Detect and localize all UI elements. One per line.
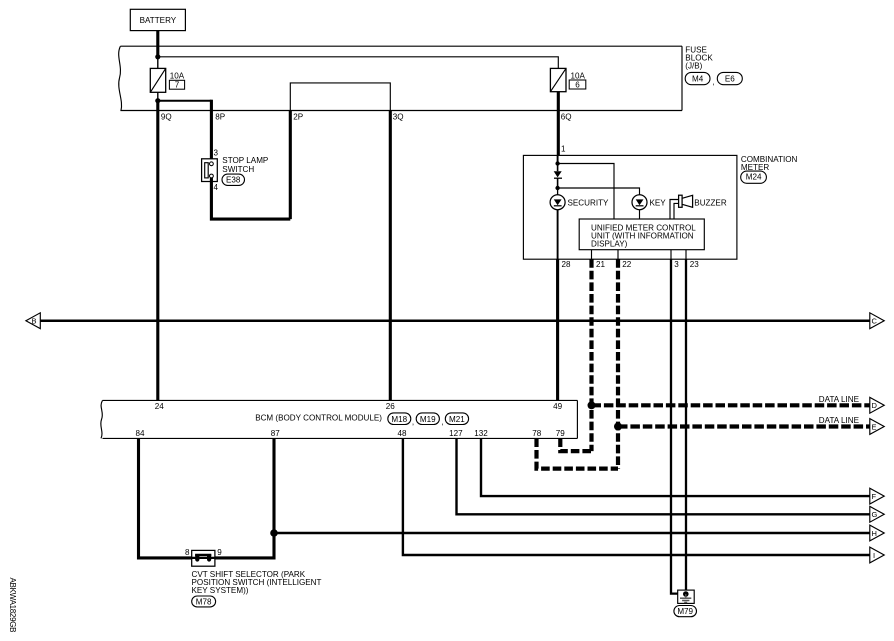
node junction below battery <box>155 54 160 59</box>
wire BCM pin 48 to I <box>403 438 870 555</box>
svg-text:23: 23 <box>690 260 700 269</box>
label STOP LAMP SWITCH <box>222 156 268 174</box>
wire meter pin 23 to ground <box>685 259 687 593</box>
svg-text:24: 24 <box>155 402 165 411</box>
node junction data line D <box>588 401 596 409</box>
svg-text:M24: M24 <box>746 173 762 182</box>
svg-text:6: 6 <box>575 81 580 90</box>
wire 6Q to combination meter pin 1 <box>557 92 560 156</box>
wire H line <box>274 532 870 534</box>
wire junction 2 to KEY lamp <box>558 188 640 195</box>
svg-text:8: 8 <box>185 548 190 557</box>
svg-text:E38: E38 <box>226 176 241 185</box>
connector E6 <box>717 72 742 84</box>
wire meter pin 28 to BCM pin 49 <box>556 259 559 400</box>
combination meter box <box>523 155 737 259</box>
wire BCM pin 79 shielded <box>560 438 591 451</box>
label FUSE BLOCK (J/B) <box>685 45 713 70</box>
node junction meter top <box>555 161 559 165</box>
svg-text:DATA LINE: DATA LINE <box>819 416 860 425</box>
svg-text:84: 84 <box>135 429 145 438</box>
svg-text:2P: 2P <box>293 112 303 121</box>
svg-text:M79: M79 <box>677 607 693 616</box>
svg-text:9: 9 <box>217 548 222 557</box>
svg-text:KEY: KEY <box>650 198 667 207</box>
wire stop lamp switch pin 4 to 2P <box>211 178 290 219</box>
label CVT SHIFT SELECTOR <box>192 570 322 595</box>
svg-text:10A: 10A <box>170 71 185 80</box>
svg-text:28: 28 <box>562 260 572 269</box>
svg-text:G: G <box>872 510 878 519</box>
diode D1 <box>554 171 562 178</box>
wire shielded data line pin 22 <box>616 259 620 468</box>
internal link 2P to 3Q <box>290 83 390 111</box>
wire fuse 7 to lower junction <box>157 92 159 100</box>
connector M78 <box>192 596 216 607</box>
svg-text:3Q: 3Q <box>393 112 404 121</box>
label COMBINATION METER <box>741 155 798 172</box>
svg-text:21: 21 <box>596 260 606 269</box>
wire BCM pin 87 <box>272 438 275 533</box>
svg-text:SECURITY: SECURITY <box>568 198 610 207</box>
node junction data line E <box>614 423 622 431</box>
ground M79 <box>678 590 695 603</box>
wire pin 1 into meter <box>557 155 559 163</box>
svg-text:4: 4 <box>214 183 219 192</box>
LED KEY indicator <box>632 195 647 210</box>
connector M19 <box>416 413 439 425</box>
connector M18 <box>388 413 411 425</box>
wire 2P stop lamp switch loop <box>289 111 292 220</box>
wire unified unit pin 22 <box>617 250 619 260</box>
connector M24 <box>741 171 767 183</box>
svg-text:M18: M18 <box>391 415 407 424</box>
wire diode anode <box>557 164 559 172</box>
svg-text:KEY SYSTEM)): KEY SYSTEM)) <box>192 586 249 595</box>
svg-text:78: 78 <box>532 429 542 438</box>
svg-text:48: 48 <box>397 429 407 438</box>
svg-text:I: I <box>873 551 875 560</box>
svg-text:M19: M19 <box>420 415 436 424</box>
connector arrow H <box>870 525 884 541</box>
connector arrow G <box>870 506 884 522</box>
svg-text:STOP LAMP: STOP LAMP <box>222 156 268 165</box>
BCM box <box>101 400 578 438</box>
svg-text:49: 49 <box>553 402 563 411</box>
svg-text:1: 1 <box>561 144 566 153</box>
connector E38 <box>222 174 245 185</box>
unified meter control unit U1 <box>579 219 704 250</box>
wire BCM pin 78 shielded <box>537 438 619 468</box>
wire unified unit pin 23 <box>685 250 687 260</box>
stop lamp switch E38 <box>202 159 218 182</box>
connector M79 <box>674 606 697 617</box>
node junction 2 <box>555 186 559 190</box>
svg-text:127: 127 <box>449 429 463 438</box>
wire 9Q fuse block to BCM pin 24 <box>156 101 159 401</box>
connector M4 <box>685 72 710 84</box>
node junction H <box>270 529 278 537</box>
connector arrow D <box>870 397 884 413</box>
svg-text:M4: M4 <box>692 75 704 84</box>
svg-text:METER: METER <box>741 163 769 172</box>
wire BCM pin 127 to G <box>457 438 871 514</box>
wire meter pin 3 to ground <box>671 259 679 593</box>
svg-text:9Q: 9Q <box>161 112 172 121</box>
wire battery to fuse block <box>156 31 159 57</box>
wire shielded data line pin 21 <box>589 259 593 451</box>
wire unified unit pin 21 <box>591 250 593 260</box>
wire B to C trunk <box>40 319 871 322</box>
connector arrow E <box>870 419 884 435</box>
svg-text:BUZZER: BUZZER <box>694 198 727 207</box>
svg-text:SWITCH: SWITCH <box>222 165 254 174</box>
svg-text:,: , <box>412 417 414 426</box>
node junction below fuse 7 <box>155 98 160 103</box>
connector arrow F <box>870 488 884 504</box>
wire diode to junction 2 <box>557 178 559 188</box>
fuse F7 10A <box>150 68 165 92</box>
svg-text:D: D <box>872 401 878 410</box>
fuse number box 6 <box>569 80 586 90</box>
svg-text:87: 87 <box>271 429 281 438</box>
fuse F6 10A <box>550 68 566 91</box>
svg-text:E: E <box>872 422 877 431</box>
svg-text:,: , <box>712 78 714 87</box>
svg-text:7: 7 <box>175 81 180 90</box>
wire junction to unified unit <box>558 164 614 220</box>
wire unified unit pin 3 <box>670 250 672 260</box>
wire BCM pin 84 to CVT switch pin 8 <box>139 438 192 558</box>
svg-text:C: C <box>872 317 878 326</box>
svg-text:(J/B): (J/B) <box>685 61 702 70</box>
svg-text:79: 79 <box>556 429 566 438</box>
CVT shift selector park position switch <box>192 550 215 566</box>
svg-text:132: 132 <box>474 429 488 438</box>
wire KEY lamp to unified unit <box>639 210 641 220</box>
wire junction to fuse 6 <box>158 57 559 69</box>
svg-text:H: H <box>872 529 877 538</box>
wire 8P to stop lamp switch pin 3 <box>210 100 213 162</box>
wire junction down to fuse 7 <box>157 57 159 69</box>
svg-text:3: 3 <box>674 260 679 269</box>
svg-text:BATTERY: BATTERY <box>140 16 177 25</box>
wire data line E <box>618 424 870 428</box>
svg-text:B: B <box>32 317 37 326</box>
svg-text:BCM (BODY CONTROL MODULE): BCM (BODY CONTROL MODULE) <box>255 413 382 422</box>
svg-text:8P: 8P <box>215 112 225 121</box>
fuse block (J/B) box <box>119 46 682 110</box>
svg-text:22: 22 <box>622 260 632 269</box>
svg-text:6Q: 6Q <box>561 112 572 121</box>
buzzer leads <box>670 200 679 220</box>
wire 3Q to BCM pin 26 <box>389 111 392 401</box>
svg-text:M78: M78 <box>196 598 212 607</box>
wire data line D <box>592 403 871 407</box>
wire junction to 8P <box>158 100 212 102</box>
fuse number box 7 <box>169 80 184 89</box>
svg-text:F: F <box>872 492 877 501</box>
wire BCM pin 132 to F <box>481 438 870 496</box>
connector arrow C <box>870 313 884 329</box>
wire SECURITY lamp to pin 28 <box>557 210 559 260</box>
svg-text:,: , <box>441 417 443 426</box>
svg-text:DISPLAY): DISPLAY) <box>591 239 628 248</box>
battery B1 <box>130 9 185 30</box>
svg-text:E6: E6 <box>725 75 735 84</box>
connector M21 <box>445 413 468 425</box>
buzzer BZ1 <box>679 195 693 207</box>
wire junction to CVT switch pin 9 <box>215 533 274 558</box>
connector arrow B <box>26 313 40 329</box>
svg-text:M21: M21 <box>449 415 465 424</box>
svg-text:ABKWA1829GB: ABKWA1829GB <box>8 578 17 633</box>
connector arrow I <box>870 547 884 563</box>
svg-text:3: 3 <box>214 148 219 157</box>
svg-text:10A: 10A <box>571 71 586 80</box>
svg-text:26: 26 <box>386 402 396 411</box>
svg-text:DATA LINE: DATA LINE <box>819 395 860 404</box>
LED SECURITY indicator <box>550 188 565 210</box>
